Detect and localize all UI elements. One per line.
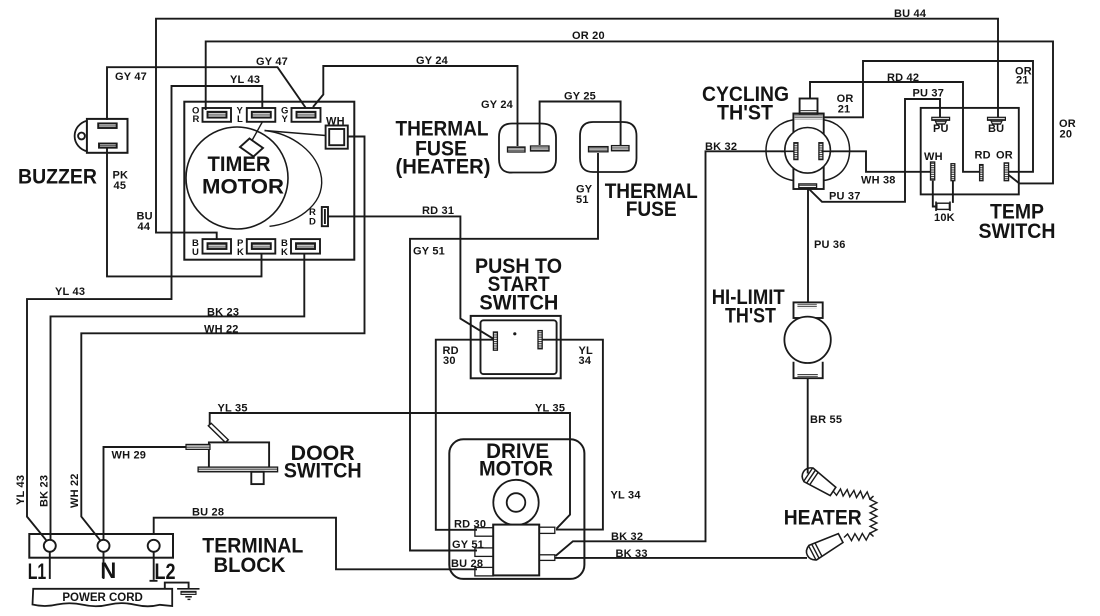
svg-text:GY 47: GY 47 [256, 56, 288, 68]
svg-text:TH'ST: TH'ST [717, 102, 773, 125]
cycling thermostat left lobe [766, 120, 793, 181]
svg-text:BLOCK: BLOCK [214, 554, 286, 577]
temp switch PU terminal [932, 117, 950, 120]
door switch body [209, 442, 269, 468]
thermal fuse terminals [589, 147, 609, 152]
buzzer [75, 121, 87, 152]
heater element zigzag [834, 489, 877, 541]
svg-text:YL 35: YL 35 [218, 403, 248, 415]
svg-text:U: U [192, 247, 199, 258]
svg-text:TIMER: TIMER [208, 153, 271, 176]
drive motor box [449, 439, 584, 579]
svg-text:POWER CORD: POWER CORD [62, 592, 143, 604]
svg-text:RD 42: RD 42 [887, 72, 919, 84]
svg-text:RD: RD [975, 150, 991, 162]
svg-text:BK 32: BK 32 [705, 141, 737, 153]
door switch base [198, 467, 278, 472]
thermal fuse body [580, 122, 637, 172]
wire GY 24 [313, 66, 518, 146]
svg-text:PU 36: PU 36 [814, 239, 846, 251]
svg-text:OR: OR [996, 150, 1013, 162]
svg-text:44: 44 [138, 221, 151, 233]
push to start right contact [538, 331, 542, 349]
svg-text:30: 30 [443, 355, 456, 367]
svg-text:L1: L1 [28, 559, 47, 584]
timer cam diamond [240, 139, 263, 157]
push to start switch inner box [481, 320, 557, 374]
svg-text:GY 47: GY 47 [115, 71, 147, 83]
wire YL 43 [27, 86, 262, 540]
cycling thermostat top hatch band [795, 114, 823, 119]
svg-text:L: L [237, 114, 243, 125]
drive motor block [493, 525, 539, 576]
cycling thermostat hat [800, 99, 818, 114]
thermal fuse heater body [499, 124, 556, 173]
wire PK 45 [107, 148, 262, 276]
svg-text:GY 25: GY 25 [564, 91, 596, 103]
svg-text:K: K [281, 247, 288, 258]
temp switch RD contact [980, 165, 983, 181]
wire OR 21 [824, 61, 1033, 172]
svg-text:PU 37: PU 37 [913, 88, 945, 100]
svg-text:MOTOR: MOTOR [202, 175, 284, 198]
wire YL 35 [210, 413, 570, 529]
wire GY 51 [410, 153, 598, 551]
svg-text:WH: WH [924, 151, 943, 163]
svg-text:R: R [193, 114, 200, 125]
svg-text:Y: Y [282, 114, 289, 125]
wire PU 36 [807, 190, 809, 303]
wire BK 33 [555, 557, 807, 559]
svg-text:BU 28: BU 28 [192, 507, 224, 519]
power cord box [33, 589, 173, 607]
timer WH link [265, 131, 326, 136]
temp switch BU terminal [988, 117, 1006, 120]
cycling thermostat contacts [794, 143, 798, 160]
timer terminal WH [326, 126, 348, 149]
svg-text:SWITCH: SWITCH [284, 460, 362, 483]
cycling thermostat bottom bar [799, 184, 817, 188]
svg-text:YL 43: YL 43 [55, 286, 85, 298]
wire GY 25 [540, 102, 621, 146]
heater bottom plug [804, 531, 845, 563]
svg-text:GY 24: GY 24 [416, 55, 449, 67]
wire BK 23 [51, 255, 305, 540]
svg-text:BK 32: BK 32 [611, 531, 643, 543]
thermal fuse heater terminals [508, 147, 526, 152]
terminal L1 circle [44, 540, 56, 552]
svg-text:34: 34 [579, 355, 592, 367]
svg-text:SWITCH: SWITCH [979, 220, 1056, 243]
svg-text:YL 35: YL 35 [535, 403, 565, 415]
cycling thermostat body rect [793, 114, 823, 190]
wire WH 38 [823, 151, 931, 172]
wire GY 47 [107, 67, 306, 120]
svg-text:BR 55: BR 55 [810, 414, 842, 426]
timer motor circle [186, 127, 288, 229]
temp switch mid contact [951, 164, 955, 181]
svg-text:BU 28: BU 28 [451, 558, 483, 570]
temp switch box [921, 108, 1019, 194]
cycling wire stubs [781, 150, 834, 152]
svg-text:WH: WH [326, 116, 345, 128]
svg-text:L2: L2 [155, 559, 176, 584]
svg-text:WH 22: WH 22 [69, 473, 81, 508]
svg-text:K: K [237, 247, 244, 258]
svg-text:BUZZER: BUZZER [18, 166, 97, 189]
ground link [165, 583, 189, 589]
cycling thermostat circle [785, 128, 831, 174]
timer terminal BU [203, 239, 232, 254]
svg-text:10K: 10K [934, 212, 955, 224]
svg-text:HEATER: HEATER [784, 506, 862, 529]
timer YL terminal link [252, 122, 262, 141]
wire BU 28 [154, 518, 477, 570]
timer terminal RD [322, 207, 328, 226]
svg-text:MOTOR: MOTOR [479, 457, 553, 480]
svg-text:45: 45 [114, 180, 127, 192]
hi-limit circle [784, 317, 830, 363]
svg-text:D: D [309, 217, 316, 228]
svg-text:51: 51 [576, 194, 589, 206]
timer cam curve [265, 131, 322, 227]
svg-text:PU: PU [933, 123, 949, 135]
timer box [184, 102, 354, 260]
svg-text:20: 20 [1060, 129, 1073, 141]
wire BR 55 [807, 378, 809, 473]
heater top plug [799, 465, 838, 498]
svg-text:RD 30: RD 30 [454, 519, 486, 531]
svg-text:TH'ST: TH'ST [725, 305, 776, 328]
door switch foot [251, 472, 263, 484]
svg-text:N: N [100, 558, 116, 583]
wire RD 42 [810, 82, 980, 172]
svg-text:YL 43: YL 43 [230, 74, 260, 86]
push to start left contact [493, 332, 497, 350]
hi-limit bottom cap [794, 362, 823, 379]
wire WH 22 [81, 137, 364, 541]
wire RD 30 [436, 340, 494, 530]
push to start switch outer box [471, 316, 561, 378]
terminal stubs [50, 552, 158, 581]
terminal N circle [98, 540, 110, 552]
timer terminal OR [203, 108, 232, 122]
svg-text:YL 34: YL 34 [611, 490, 642, 502]
wire BU 44 [156, 19, 998, 240]
drive motor left terminals [475, 528, 493, 537]
wire YL 34 [542, 340, 603, 530]
timer terminal GY [292, 108, 321, 122]
door switch lever [208, 423, 228, 442]
temp switch OR contact [1004, 163, 1008, 181]
wire OR 20 [206, 41, 1053, 183]
svg-text:WH 29: WH 29 [112, 450, 147, 462]
timer terminal YL [247, 108, 275, 122]
terminal block [29, 534, 173, 558]
wire BK 32 [556, 151, 794, 556]
svg-text:BK 23: BK 23 [39, 475, 51, 507]
drive motor right terminals [539, 527, 555, 533]
resistor 10K [937, 203, 950, 209]
svg-text:BU: BU [988, 123, 1004, 135]
terminal L2 circle [148, 540, 160, 552]
svg-text:21: 21 [838, 104, 851, 116]
svg-text:BK 33: BK 33 [616, 548, 648, 560]
svg-text:YL 43: YL 43 [15, 475, 27, 505]
svg-text:RD 31: RD 31 [422, 205, 454, 217]
svg-text:OR 20: OR 20 [572, 30, 605, 42]
drive motor circle [493, 480, 538, 525]
push to start dot [513, 332, 516, 335]
hi-limit top cap [794, 302, 823, 318]
cycling thermostat right lobe [824, 120, 850, 181]
svg-text:BK 23: BK 23 [207, 307, 239, 319]
svg-text:GY 24: GY 24 [481, 99, 514, 111]
svg-text:BU 44: BU 44 [894, 8, 927, 20]
svg-text:(HEATER): (HEATER) [396, 155, 491, 178]
svg-text:GY 51: GY 51 [413, 246, 445, 258]
svg-text:FUSE: FUSE [626, 198, 677, 221]
timer terminal BK [291, 239, 320, 254]
temp switch WH contact [931, 162, 935, 180]
door switch wire sleeve [186, 444, 210, 449]
svg-text:WH 38: WH 38 [861, 175, 896, 187]
svg-text:WH 22: WH 22 [204, 324, 239, 336]
timer terminal PK [247, 239, 275, 254]
svg-text:21: 21 [1016, 75, 1029, 87]
wire PU 37 [810, 99, 941, 202]
wire RD 31 [329, 216, 494, 338]
svg-text:GY 51: GY 51 [452, 539, 484, 551]
svg-text:SWITCH: SWITCH [479, 291, 558, 314]
wire 10K links [933, 181, 953, 207]
ground symbol [177, 588, 199, 590]
svg-text:PU 37: PU 37 [829, 191, 861, 203]
wire WH 29 [104, 447, 210, 540]
